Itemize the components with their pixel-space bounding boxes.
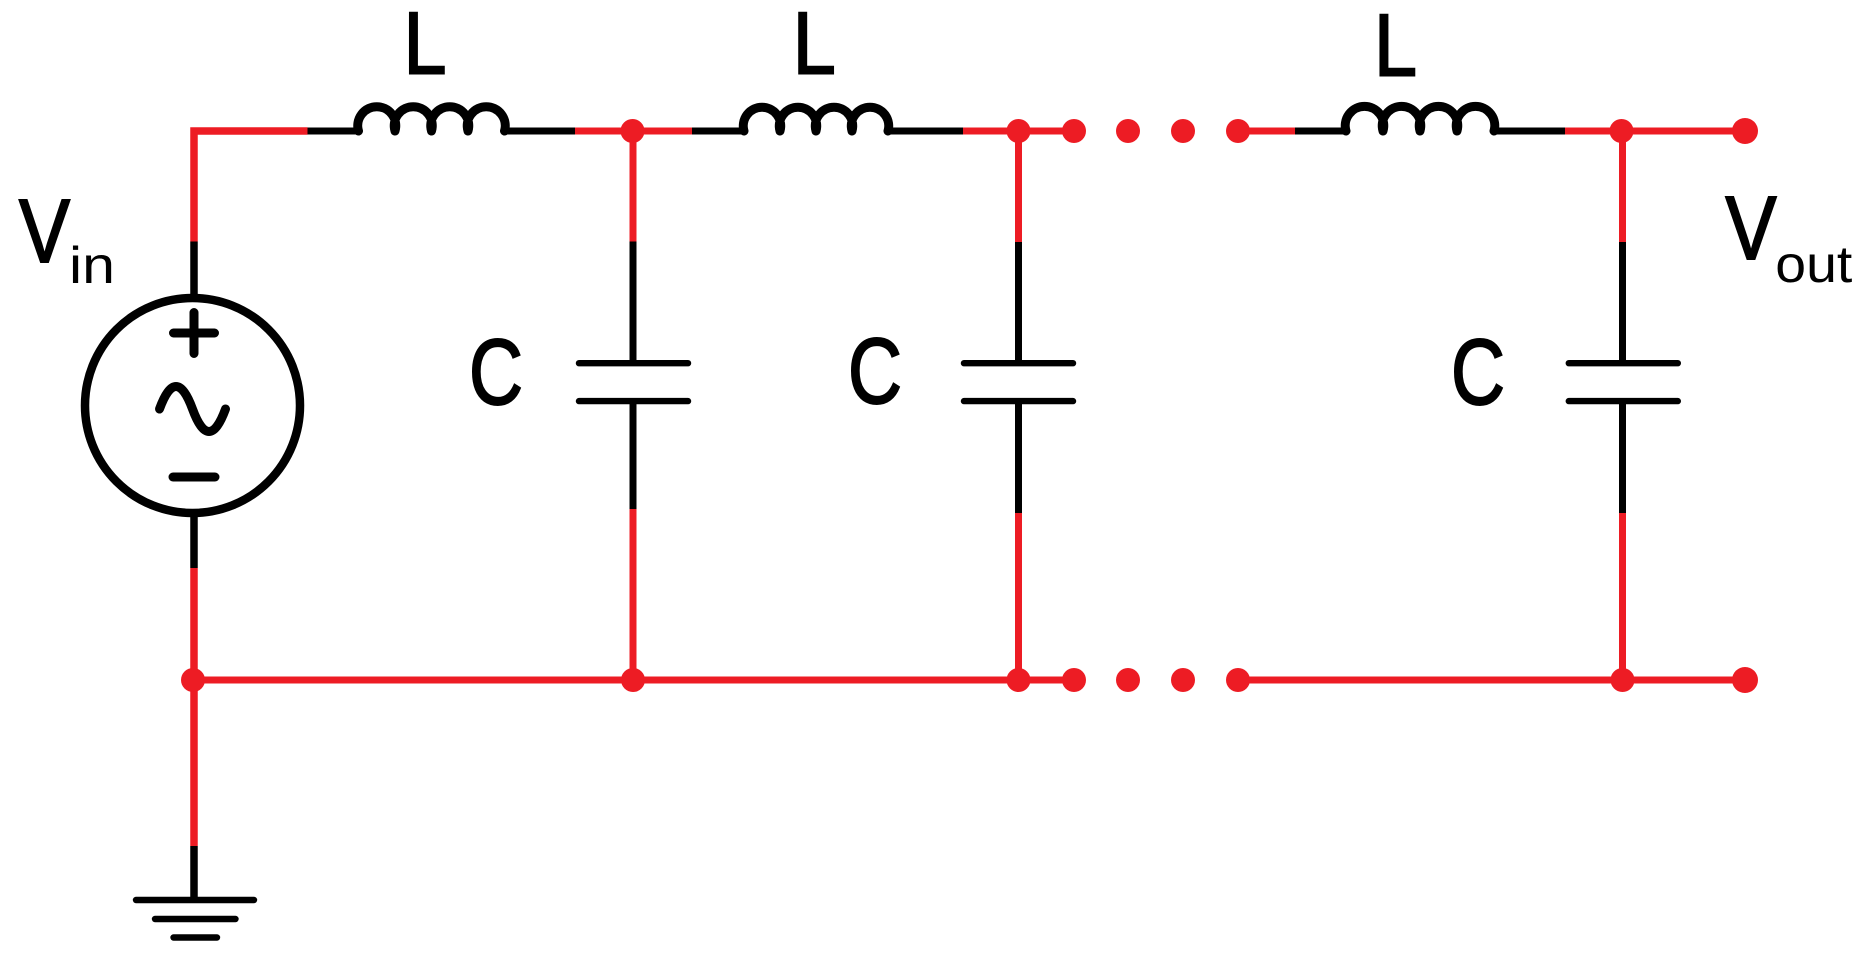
node 2 (top) bbox=[1007, 119, 1031, 143]
wire black stub to ground bbox=[190, 846, 198, 900]
wire red cap3 bottom bbox=[1619, 513, 1626, 680]
wire top-left corner red (Vin+ to L1) bbox=[194, 131, 308, 242]
node ground (bottom left) bbox=[181, 668, 205, 692]
inductor L2 bbox=[743, 107, 888, 131]
svg-text:L: L bbox=[793, 0, 836, 93]
wire black stub source bottom bbox=[190, 513, 198, 568]
wire red node1 segment bbox=[575, 128, 692, 135]
node 5 (cap2 bottom) bbox=[1007, 668, 1031, 692]
svg-text:V: V bbox=[1726, 179, 1777, 279]
dot ellipsis bottom c bbox=[1171, 668, 1195, 692]
wire red node2 segment bbox=[963, 128, 1074, 135]
svg-text:in: in bbox=[69, 237, 115, 295]
svg-text:C: C bbox=[848, 319, 902, 423]
dot ellipsis bottom d bbox=[1226, 668, 1250, 692]
wire red cap1 bottom bbox=[630, 509, 637, 680]
dot ellipsis top c bbox=[1171, 119, 1195, 143]
wire red node3 to output bbox=[1565, 128, 1745, 135]
ground bbox=[136, 900, 254, 938]
wire red cap2 top bbox=[1015, 131, 1022, 242]
inductor L3 bbox=[1345, 106, 1495, 131]
wire black cap1 bottom lead bbox=[630, 401, 637, 509]
dot ellipsis top b bbox=[1116, 119, 1140, 143]
wire black L2 right lead bbox=[888, 128, 963, 135]
svg-text:L: L bbox=[404, 0, 447, 93]
node 1 (top) bbox=[621, 119, 645, 143]
wire black L3 right lead bbox=[1494, 128, 1565, 135]
voltage source V1 bbox=[85, 298, 300, 513]
svg-text:out: out bbox=[1775, 236, 1853, 294]
dot ellipsis bottom a bbox=[1062, 668, 1086, 692]
node 3 (top) bbox=[1610, 119, 1634, 143]
wire black cap3 top lead bbox=[1619, 242, 1626, 363]
svg-text:V: V bbox=[19, 182, 70, 282]
wire red cap3 top bbox=[1619, 131, 1626, 242]
wire black stub source top bbox=[190, 242, 198, 299]
svg-text:L: L bbox=[1374, 0, 1417, 95]
svg-text:C: C bbox=[1451, 320, 1505, 424]
wire black cap3 bottom lead bbox=[1619, 401, 1626, 513]
capacitor C3 bbox=[1569, 363, 1678, 401]
terminal Vout- bbox=[1732, 667, 1758, 693]
node 6 (cap3 bottom) bbox=[1611, 668, 1635, 692]
wire black L1 right lead bbox=[505, 128, 576, 135]
capacitor C2 bbox=[964, 363, 1073, 401]
wire black cap2 top lead bbox=[1015, 242, 1022, 363]
dot ellipsis top a bbox=[1062, 119, 1086, 143]
wire red after ellipsis top bbox=[1238, 128, 1295, 135]
svg-text:C: C bbox=[469, 320, 523, 424]
node 4 (cap1 bottom) bbox=[621, 668, 645, 692]
wire red bottom rail left bbox=[193, 677, 1074, 684]
label Vin bbox=[19, 182, 115, 295]
wire black L1 left lead bbox=[308, 128, 360, 135]
wire red cap2 bottom bbox=[1015, 513, 1022, 680]
dot ellipsis bottom b bbox=[1116, 668, 1140, 692]
wire red source bottom to ground node bbox=[190, 568, 198, 846]
wire black cap1 top lead bbox=[630, 242, 637, 364]
wire red bottom rail right bbox=[1238, 677, 1745, 684]
wire red cap1 top bbox=[630, 131, 637, 242]
label Vout bbox=[1726, 179, 1853, 294]
wire black L2 left lead bbox=[692, 128, 744, 135]
terminal Vout+ bbox=[1732, 118, 1758, 144]
wire black L3 left lead bbox=[1295, 128, 1346, 135]
wire black cap2 bottom lead bbox=[1015, 401, 1022, 513]
inductor L1 bbox=[358, 107, 505, 131]
dot ellipsis top d bbox=[1226, 119, 1250, 143]
capacitor C1 bbox=[579, 363, 688, 401]
